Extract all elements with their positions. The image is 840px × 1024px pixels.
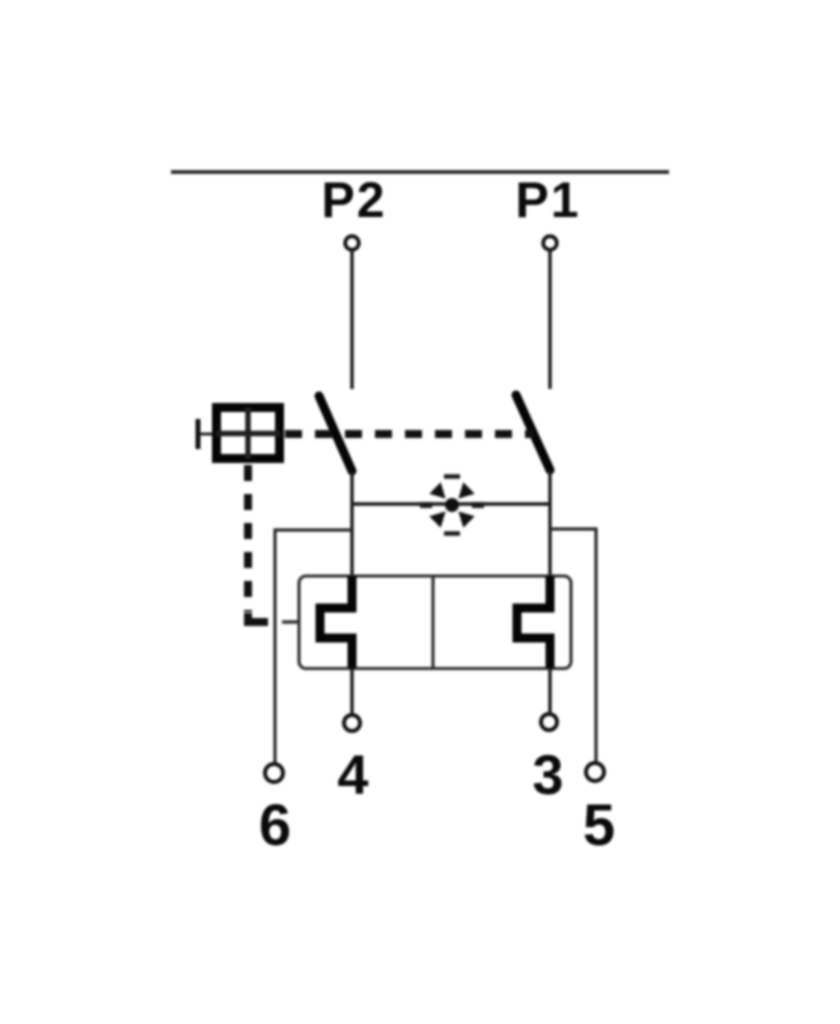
trip element left (320, 576, 352, 668)
wire P2 down (350, 250, 353, 389)
linkage thin dash to trip box (282, 620, 298, 624)
top rule line (171, 170, 669, 173)
residual current sensing coil (420, 477, 484, 534)
terminal P1 (543, 236, 557, 250)
terminal 4 (344, 715, 360, 731)
terminal P2 (345, 236, 359, 250)
mechanical linkage dashed horizontal (285, 430, 534, 438)
switch contact left (319, 396, 352, 471)
wire left pole mid (350, 471, 353, 576)
wire P1 down (548, 250, 551, 389)
svg-text:4: 4 (337, 743, 368, 806)
svg-text:3: 3 (532, 743, 563, 806)
wire through sensing coil (352, 502, 550, 505)
linkage corner dash (248, 613, 268, 622)
trip unit box (299, 576, 571, 669)
mechanical linkage dashed vertical (244, 465, 252, 612)
terminal 6 (265, 764, 283, 782)
svg-text:P2: P2 (321, 172, 386, 228)
wire right pole mid (548, 470, 551, 576)
svg-text:P1: P1 (515, 172, 580, 228)
switch contact right (516, 395, 550, 470)
wire to terminal 6 (275, 530, 352, 763)
wire to terminal 5 (550, 529, 596, 763)
wire to terminal 4 (350, 668, 353, 713)
svg-text:5: 5 (583, 793, 615, 858)
trip element right (517, 576, 550, 668)
terminal 5 (586, 763, 604, 781)
wire to terminal 3 (548, 668, 551, 712)
trip unit divider (431, 576, 434, 669)
svg-text:6: 6 (259, 793, 291, 858)
test button T (198, 407, 280, 459)
terminal 3 (541, 714, 557, 730)
